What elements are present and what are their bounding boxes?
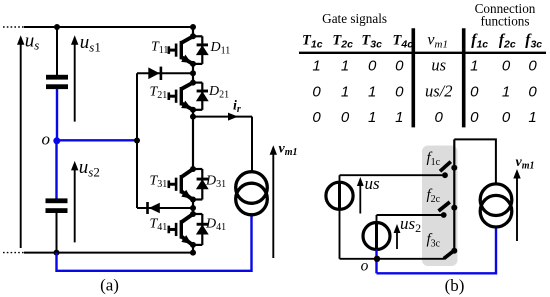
svg-text:0: 0 bbox=[502, 109, 511, 126]
wire: leg chain segment rail to T11 bbox=[192, 27, 194, 36]
svg-text:o: o bbox=[361, 258, 369, 275]
wire: bottom return to current source (blue) bbox=[57, 215, 252, 271]
wire: leg chain segment T41 to bottom rail bbox=[192, 245, 194, 253]
label us2 bbox=[79, 157, 100, 179]
label D41 bbox=[205, 216, 226, 232]
table header T1c bbox=[302, 32, 323, 50]
label (b) bbox=[445, 276, 465, 295]
node: bottom rail / capacitor C2 junction bbox=[54, 250, 60, 256]
label T31 bbox=[150, 174, 168, 190]
label f2c bbox=[427, 187, 441, 205]
svg-text:f3c: f3c bbox=[525, 31, 542, 50]
svg-text:1: 1 bbox=[341, 84, 349, 101]
svg-text:D41: D41 bbox=[205, 216, 226, 232]
svg-text:1: 1 bbox=[528, 109, 536, 126]
capacitor C2 (lower dc-link) bbox=[46, 198, 68, 213]
table row 2 gate values bbox=[312, 84, 404, 101]
table row 1 connection function values bbox=[470, 57, 537, 74]
wire: us top to switch f1c bbox=[340, 174, 446, 176]
capacitor C1 (upper dc-link) bbox=[46, 75, 68, 89]
label T21 bbox=[150, 84, 168, 100]
switch f3c bbox=[444, 248, 458, 259]
svg-text:0: 0 bbox=[368, 57, 377, 74]
wire: lower clamp branch bbox=[137, 207, 193, 209]
wire: upper clamp branch bbox=[137, 72, 193, 74]
table row 3 gate values bbox=[312, 109, 403, 126]
wire: switch bus to current source (part b) bbox=[454, 139, 496, 184]
wire: leg chain segment T31 to T41 bbox=[192, 200, 194, 215]
svg-text:T1c: T1c bbox=[302, 32, 323, 50]
svg-text:(a): (a) bbox=[100, 276, 119, 295]
node o (neutral point) bbox=[53, 137, 60, 144]
table row 1 vm1 value bbox=[431, 55, 446, 74]
node: T41 cell bottom bbox=[190, 242, 196, 248]
table row 1 gate values bbox=[312, 57, 404, 74]
label o bbox=[42, 129, 51, 148]
switch f1c bbox=[440, 162, 457, 179]
node: top rail / leg top junction bbox=[190, 24, 196, 30]
label us bbox=[25, 30, 40, 52]
svg-text:0: 0 bbox=[502, 57, 511, 74]
diode D5 (upper clamp) bbox=[148, 67, 162, 80]
wire: us bottom to node o line bbox=[339, 209, 341, 258]
svg-text:f1c: f1c bbox=[471, 31, 488, 50]
svg-text:1: 1 bbox=[312, 57, 320, 74]
wire: blue return to current source (part b) bbox=[377, 227, 497, 273]
voltage source us2 (part b) bbox=[363, 215, 390, 250]
table header vm1 bbox=[427, 31, 448, 50]
node: output junction (ir) bbox=[190, 114, 196, 120]
label f1c bbox=[427, 150, 441, 168]
table row 2 connection function values bbox=[470, 84, 537, 101]
node: top rail / capacitor C1 junction bbox=[54, 24, 60, 30]
svg-text:us2: us2 bbox=[400, 214, 421, 235]
wire: node o horizontal (blue) bbox=[57, 139, 138, 141]
diode D41 (anti-parallel) bbox=[193, 214, 209, 245]
junction: neutral wire / clamp diode column bbox=[134, 138, 140, 144]
transistor T11 (IGBT) bbox=[168, 36, 193, 63]
arrow: us2 direction (part b) bbox=[394, 224, 401, 249]
arrow: vm1 voltage measurement (part a) bbox=[270, 145, 277, 258]
switch f2c bbox=[439, 202, 458, 218]
svg-text:0: 0 bbox=[312, 109, 321, 126]
arrow: us1 voltage measurement bbox=[71, 35, 78, 121]
svg-text:1: 1 bbox=[368, 84, 376, 101]
svg-text:f2c: f2c bbox=[499, 31, 516, 50]
node: bottom rail / leg bottom junction bbox=[190, 250, 196, 256]
wire: capacitor C2 to bottom rail bbox=[56, 213, 58, 253]
node: upper clamp junction bbox=[190, 70, 196, 76]
node: T31 cell top bbox=[190, 166, 196, 172]
svg-text:us/2: us/2 bbox=[425, 82, 453, 101]
svg-text:D31: D31 bbox=[205, 174, 226, 190]
svg-text:Gate signals: Gate signals bbox=[322, 11, 387, 26]
svg-text:0: 0 bbox=[395, 57, 404, 74]
table title: Gate signals bbox=[322, 11, 387, 26]
wire: clamp diode column bbox=[136, 73, 138, 208]
wire: node o line (part b) bbox=[340, 258, 445, 260]
svg-text:1: 1 bbox=[341, 57, 349, 74]
arrow: us2 voltage measurement bbox=[71, 161, 78, 243]
svg-text:0: 0 bbox=[470, 84, 479, 101]
svg-text:T41: T41 bbox=[150, 216, 168, 232]
label T41 bbox=[150, 216, 168, 232]
table divider left bbox=[411, 28, 415, 127]
svg-text:D21: D21 bbox=[208, 84, 229, 100]
wire: us2 top to switch f2c bbox=[377, 214, 444, 216]
svg-text:vm1: vm1 bbox=[279, 142, 298, 159]
switch cell background bbox=[422, 146, 458, 267]
arrow: vm1 voltage measurement (part b) bbox=[513, 169, 520, 241]
label ir bbox=[233, 98, 241, 115]
table header T4c bbox=[393, 32, 414, 50]
svg-text:1: 1 bbox=[368, 109, 376, 126]
svg-text:vm1: vm1 bbox=[427, 31, 448, 50]
table header f3c bbox=[525, 31, 542, 50]
wire: output ir to current source bbox=[193, 117, 252, 173]
transistor T21 (IGBT) bbox=[168, 83, 193, 110]
table header T3c bbox=[361, 32, 382, 50]
table header f2c bbox=[499, 31, 516, 50]
table header f1c bbox=[471, 31, 488, 50]
svg-text:T21: T21 bbox=[150, 84, 168, 100]
table divider right bbox=[462, 28, 466, 127]
svg-text:T4c: T4c bbox=[393, 32, 414, 50]
node o (part b) bbox=[374, 256, 380, 262]
transistor T31 (IGBT) bbox=[168, 169, 193, 199]
svg-text:T31: T31 bbox=[150, 174, 168, 190]
wire: top rail to capacitor C1 bbox=[56, 27, 58, 75]
node: T11 cell bottom bbox=[190, 61, 196, 67]
voltage source us (part b) bbox=[326, 175, 353, 209]
svg-text:T2c: T2c bbox=[332, 32, 353, 50]
table title: Connection functions bbox=[475, 1, 536, 29]
svg-text:0: 0 bbox=[395, 84, 404, 101]
wire: bottom dc rail (dotted continuation) bbox=[3, 252, 25, 254]
wire: bottom dc rail bbox=[24, 252, 193, 254]
node: T21 cell bottom bbox=[190, 107, 196, 113]
label T11 bbox=[151, 40, 168, 56]
svg-text:us1: us1 bbox=[80, 32, 101, 54]
wire: leg chain segment T11 to T21 bbox=[192, 64, 194, 83]
label us2 (part b) bbox=[400, 214, 421, 235]
node: T41 cell top bbox=[190, 211, 196, 217]
label us (part b) bbox=[365, 174, 381, 193]
diode D6 (lower clamp) bbox=[146, 202, 160, 214]
svg-text:1: 1 bbox=[395, 109, 403, 126]
svg-text:0: 0 bbox=[528, 57, 537, 74]
arrow: us voltage measurement bbox=[17, 35, 24, 248]
wire: capacitor C1 to node o (blue) bbox=[56, 89, 58, 141]
svg-text:(b): (b) bbox=[445, 276, 465, 295]
table header T2c bbox=[332, 32, 353, 50]
svg-text:ir: ir bbox=[233, 98, 241, 115]
wire: node o to capacitor C2 (blue) bbox=[55, 140, 57, 198]
transistor T41 (IGBT) bbox=[168, 214, 193, 244]
svg-text:us: us bbox=[365, 174, 381, 193]
label o (part b) bbox=[361, 258, 369, 275]
diode D31 (anti-parallel) bbox=[193, 169, 209, 200]
current source load (part a) bbox=[236, 172, 268, 215]
node: T21 cell top bbox=[190, 80, 196, 86]
svg-text:0: 0 bbox=[435, 109, 444, 126]
current source load (part b) bbox=[480, 184, 512, 227]
svg-text:1: 1 bbox=[502, 84, 510, 101]
label D11 bbox=[210, 40, 231, 56]
wire: switch output bus bbox=[453, 139, 455, 251]
wire: top dc rail (dotted continuation) bbox=[3, 26, 25, 28]
svg-text:us2: us2 bbox=[79, 157, 100, 179]
wire: top dc rail bbox=[24, 26, 193, 28]
node: T11 cell top bbox=[190, 33, 196, 39]
svg-text:o: o bbox=[42, 129, 51, 148]
svg-text:us: us bbox=[25, 30, 40, 52]
svg-text:D11: D11 bbox=[210, 40, 231, 56]
svg-text:T3c: T3c bbox=[361, 32, 382, 50]
label us1 bbox=[80, 32, 101, 54]
arrow: ir current direction bbox=[228, 113, 238, 121]
svg-text:functions: functions bbox=[480, 14, 529, 29]
node: T31 cell bottom bbox=[190, 197, 196, 203]
wire: leg chain segment T21 to T31 (output node) bbox=[192, 110, 194, 169]
svg-text:vm1: vm1 bbox=[516, 155, 535, 172]
svg-text:us: us bbox=[431, 55, 446, 74]
label (a) bbox=[100, 276, 119, 295]
svg-text:0: 0 bbox=[312, 84, 321, 101]
label f3c bbox=[427, 232, 441, 250]
table rule under headers bbox=[299, 52, 546, 54]
svg-text:0: 0 bbox=[528, 84, 537, 101]
diode D21 (anti-parallel) bbox=[193, 83, 209, 110]
diode D11 (anti-parallel) bbox=[193, 36, 209, 64]
arrow: us direction (part b) bbox=[357, 177, 364, 214]
label D21 bbox=[208, 84, 229, 100]
table row 2 vm1 value bbox=[425, 82, 453, 101]
table row 3 vm1 value bbox=[435, 109, 444, 126]
svg-text:1: 1 bbox=[470, 57, 478, 74]
label vm1 (part a) bbox=[279, 142, 298, 159]
svg-text:0: 0 bbox=[341, 109, 350, 126]
label vm1 (part b) bbox=[516, 155, 535, 172]
wire: us2 bottom to blue return (part b) bbox=[375, 249, 377, 273]
svg-text:0: 0 bbox=[470, 109, 479, 126]
label D31 bbox=[205, 174, 226, 190]
table row 3 connection function values bbox=[470, 109, 537, 126]
svg-text:T11: T11 bbox=[151, 40, 168, 56]
node: lower clamp junction bbox=[190, 205, 196, 211]
